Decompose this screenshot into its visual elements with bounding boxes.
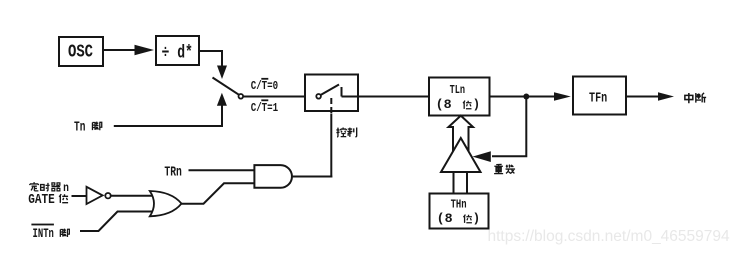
svg-text:TFn: TFn xyxy=(589,92,607,107)
control switch blade xyxy=(321,85,339,96)
overline of T (C/T=0) xyxy=(261,78,268,80)
label 重装 xyxy=(494,164,515,173)
switch C/T pole circle xyxy=(239,94,244,99)
switch C/T blade xyxy=(213,78,240,95)
box TLn register xyxy=(429,78,490,116)
wire TLn to TFn xyxy=(490,96,555,98)
label 中断 xyxy=(685,93,706,104)
svg-text:÷ d*: ÷ d* xyxy=(162,44,193,64)
svg-text:Tn: Tn xyxy=(74,120,85,136)
wire reload path (down then left) xyxy=(492,97,526,157)
wire INTn to OR gate xyxy=(80,212,152,232)
AND gate xyxy=(254,165,292,188)
arrowhead down to switch contact xyxy=(217,66,227,80)
svg-text:): ) xyxy=(473,98,481,112)
wire inverter to OR gate xyxy=(111,195,152,197)
overline of INTn xyxy=(31,224,54,226)
arrowhead into divider xyxy=(135,45,155,55)
arrowhead up to switch contact xyxy=(217,93,227,106)
hollow arrow THn to TLn (shafts) xyxy=(449,116,474,151)
wire GATE to inverter xyxy=(72,195,87,197)
svg-text:THn: THn xyxy=(451,198,467,211)
svg-text:TLn: TLn xyxy=(450,84,466,97)
svg-text:OSC: OSC xyxy=(68,43,93,63)
OR gate xyxy=(150,191,182,216)
label (8 位) in TLn xyxy=(436,98,480,112)
control switch right contact xyxy=(341,87,343,97)
svg-text:https://blog.csdn.net/m0_46559: https://blog.csdn.net/m0_46559794 xyxy=(488,228,731,245)
svg-text:GATE: GATE xyxy=(28,192,55,208)
wire control box to TLn xyxy=(342,96,430,98)
arrowhead into TFn xyxy=(554,92,571,100)
box THn register xyxy=(430,194,489,229)
svg-text:): ) xyxy=(473,212,481,226)
wire AND output up to control switch xyxy=(330,114,332,178)
wire OSC to divider xyxy=(103,49,136,51)
label (8 位) in THn xyxy=(437,212,481,226)
svg-text:n: n xyxy=(63,181,69,195)
svg-text:C/T=0: C/T=0 xyxy=(251,79,279,93)
wire Tn pin to switch (right then up) xyxy=(114,106,222,127)
double shaft triangle to THn xyxy=(454,172,468,194)
wire TRn to AND gate xyxy=(189,169,255,171)
label 控制 xyxy=(336,127,356,136)
dashed control actuation line xyxy=(330,98,332,114)
buffer triangle xyxy=(441,138,481,172)
svg-text:(8: (8 xyxy=(436,98,452,112)
arrowhead to interrupt xyxy=(658,92,674,100)
box TFn flag xyxy=(573,77,626,115)
wire TFn to interrupt xyxy=(626,96,659,98)
wire OR output to AND gate xyxy=(182,183,255,203)
inverter bubble xyxy=(105,193,110,198)
inverter triangle xyxy=(87,187,103,204)
control switch pole circle xyxy=(316,94,321,99)
svg-text:C/T=1: C/T=1 xyxy=(251,101,279,115)
junction node dot xyxy=(523,94,529,100)
wire AND output to control vertical xyxy=(292,176,332,178)
label 定时器 n xyxy=(30,181,69,195)
box control switch xyxy=(305,75,358,112)
label GATE 位 xyxy=(28,192,68,208)
svg-text:TRn: TRn xyxy=(164,166,182,181)
label INTn 脚 xyxy=(33,227,70,241)
svg-text:INTn: INTn xyxy=(33,227,54,241)
arrowhead reload into buffer xyxy=(473,151,491,162)
wire switch pole to control box xyxy=(243,96,316,98)
box OSC (oscillator) xyxy=(59,37,103,66)
overline of T (C/T=1) xyxy=(261,99,268,101)
wire divider to switch (right then down) xyxy=(199,51,222,66)
box divider ÷d* xyxy=(156,36,199,65)
svg-text:(8: (8 xyxy=(437,212,453,226)
